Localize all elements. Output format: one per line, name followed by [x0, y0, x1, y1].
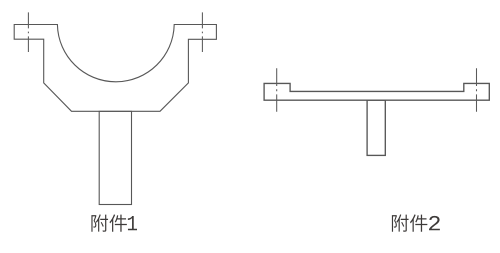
label 附件1 char jian [109, 214, 126, 231]
label 附件1 digit 1 [128, 216, 137, 230]
label 附件1 char fu [91, 214, 108, 231]
part 1 left centerline [27, 12, 29, 52]
label 附件2 char fu [392, 214, 409, 231]
part 2 right centerline [476, 68, 478, 111]
label 附件2 digit 2 [429, 216, 440, 230]
part 2 left centerline [276, 68, 278, 111]
part 1 right centerline [201, 12, 203, 52]
part 1 stem [99, 111, 131, 204]
part 1 saddle-bracket outline [14, 25, 216, 112]
part 2 tee-bar outline [264, 83, 489, 100]
label 附件2 char jian [410, 214, 427, 231]
part 2 stem [367, 100, 385, 155]
